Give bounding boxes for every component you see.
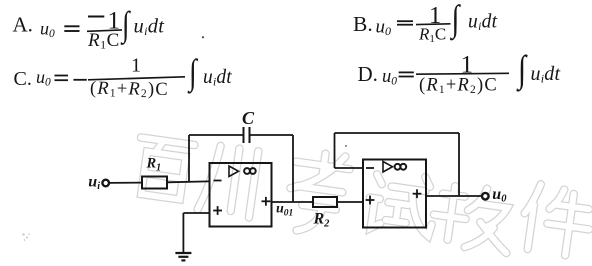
svg-text:uidt: uidt — [203, 67, 232, 89]
svg-text:(R1+R2)C: (R1+R2)C — [419, 76, 498, 97]
svg-text:uidt: uidt — [531, 63, 561, 86]
svg-text:∫: ∫ — [450, 0, 461, 40]
svg-text:uidt: uidt — [134, 16, 166, 39]
svg-text:(R1+R2)C: (R1+R2)C — [90, 79, 169, 101]
svg-text:1: 1 — [131, 55, 141, 77]
svg-text:A.: A. — [13, 13, 33, 37]
svg-text:C.: C. — [14, 68, 32, 90]
svg-text:C: C — [242, 108, 255, 128]
svg-text:uidt: uidt — [468, 12, 498, 34]
svg-text:B.: B. — [353, 12, 373, 36]
svg-text:D.: D. — [358, 62, 378, 86]
